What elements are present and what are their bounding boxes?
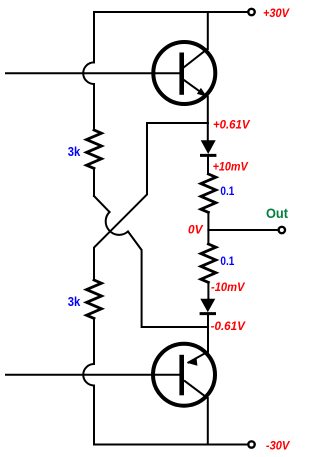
svg-text:0.1: 0.1 xyxy=(220,184,234,198)
svg-text:+0.61V: +0.61V xyxy=(213,118,250,132)
wire left vertical from +30V rail to hop xyxy=(93,12,95,62)
terminal Out xyxy=(279,227,285,233)
svg-text:-30V: -30V xyxy=(266,439,290,453)
wire from D2 bar through lower junction to Q2 emitter xyxy=(207,313,209,351)
wire hop over upper base wire xyxy=(83,62,94,84)
terminal +30V xyxy=(248,9,254,15)
resistor R3 0.1 xyxy=(201,174,216,212)
wire below lower 3k to hop xyxy=(93,318,95,364)
wire below upper 3k down to crossover diagonal start xyxy=(93,168,95,196)
wire from R 0.1 upper through 0V node to R 0.1 lower xyxy=(207,212,209,244)
wire bottom rail -30V xyxy=(94,444,248,446)
wire collector of Q2 to bottom rail xyxy=(207,398,209,445)
wire between R 0.1 lower and diode D2 xyxy=(207,282,209,299)
svg-text:+30V: +30V xyxy=(263,6,290,20)
wire crossover diagonal A lower part to right vertical xyxy=(128,232,208,328)
wire base of Q2 xyxy=(6,374,180,376)
resistor R4 0.1 xyxy=(201,244,216,282)
wire top rail +30V xyxy=(94,11,248,13)
wire emitter of Q1 down to junction and diode D1 xyxy=(207,97,209,141)
wire left vertical from hop to R1 xyxy=(93,84,95,130)
wire collector of Q1 to top rail xyxy=(207,12,209,49)
resistor R2 3k xyxy=(87,280,102,318)
svg-text:3k: 3k xyxy=(68,295,81,309)
wire hop over lower base wire xyxy=(83,364,94,386)
svg-text:0V: 0V xyxy=(188,222,203,236)
transistor Q2 (PNP lower) xyxy=(153,344,215,406)
svg-text:-0.61V: -0.61V xyxy=(211,319,246,333)
wire base of Q1 xyxy=(6,72,180,74)
wire hop of crossover diagonal A xyxy=(106,212,128,235)
svg-text:-10mV: -10mV xyxy=(211,280,245,294)
wire crossover diagonal A upper part xyxy=(94,196,110,212)
wire between D1 and R 0.1 upper xyxy=(207,155,209,174)
wire from hop to bottom rail xyxy=(93,386,95,445)
svg-text:Out: Out xyxy=(266,205,288,221)
transistor Q1 (NPN upper) xyxy=(153,42,215,104)
wire node 0V to Out terminal xyxy=(208,229,278,231)
diode D2 xyxy=(200,299,216,314)
svg-text:3k: 3k xyxy=(68,145,81,159)
terminal -30V xyxy=(248,441,254,447)
resistor R1 3k xyxy=(87,130,102,168)
wire path B: from upper diode junction down and crossing to lower 3k xyxy=(94,123,208,280)
svg-text:+10mV: +10mV xyxy=(213,160,249,174)
diode D1 xyxy=(200,140,216,155)
svg-text:0.1: 0.1 xyxy=(220,254,234,268)
